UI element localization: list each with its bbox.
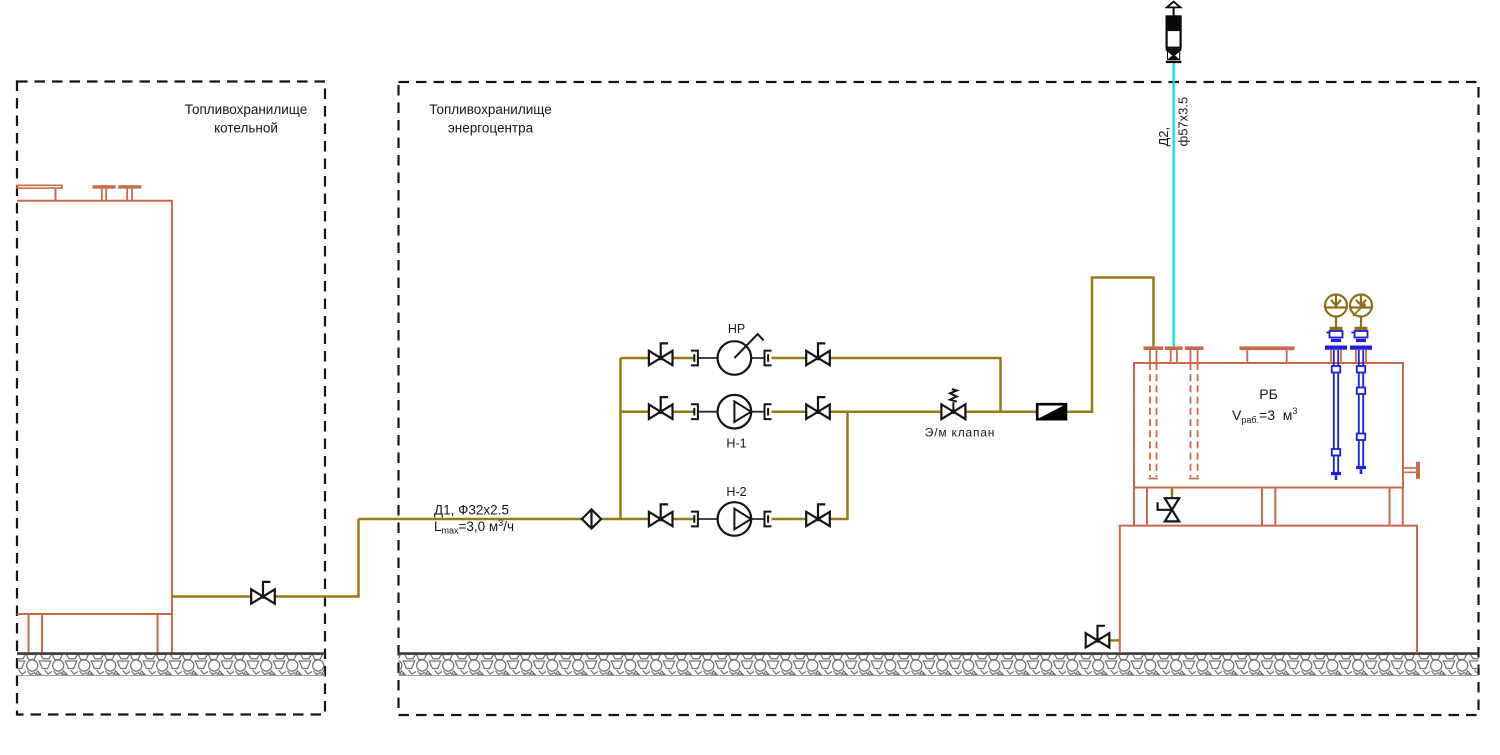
- svg-text:Топливохранилище: Топливохранилище: [185, 102, 307, 117]
- svg-text:НР: НР: [728, 322, 745, 336]
- svg-text:Lmax=3,0 м3/ч: Lmax=3,0 м3/ч: [434, 518, 514, 536]
- svg-text:Д2,: Д2,: [1156, 127, 1171, 147]
- svg-text:Э/м клапан: Э/м клапан: [925, 426, 995, 440]
- svg-text:котельной: котельной: [214, 121, 278, 136]
- svg-text:Д1, Ф32х2.5: Д1, Ф32х2.5: [434, 503, 509, 518]
- svg-text:Н-2: Н-2: [726, 485, 746, 499]
- svg-text:ф57х3.5: ф57х3.5: [1176, 97, 1191, 147]
- svg-text:Н-1: Н-1: [726, 437, 746, 451]
- svg-text:РБ: РБ: [1259, 386, 1278, 402]
- svg-text:энергоцентра: энергоцентра: [448, 121, 534, 136]
- svg-text:Vраб.=3 м3: Vраб.=3 м3: [1232, 406, 1297, 425]
- svg-text:Топливохранилище: Топливохранилище: [429, 102, 551, 117]
